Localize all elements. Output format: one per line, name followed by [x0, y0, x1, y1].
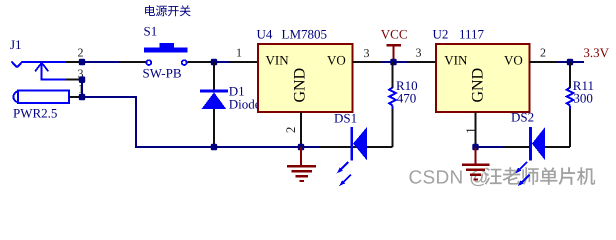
wire S1 to node A	[188, 61, 215, 63]
svg-text:LM7805: LM7805	[282, 27, 328, 42]
label DS1	[334, 111, 357, 126]
IC U2 (1117 regulator) body	[436, 44, 529, 112]
wire ground rail	[135, 146, 350, 148]
value label LM7805	[282, 27, 328, 42]
wire U4 VO to VCC node	[381, 61, 408, 63]
svg-text:VIN: VIN	[444, 52, 468, 67]
svg-text:3.3V: 3.3V	[583, 45, 609, 60]
junction U2 GND node	[472, 144, 478, 151]
svg-text:Diode: Diode	[229, 96, 261, 111]
pin 2 of U2 (VO)	[529, 61, 557, 63]
pin 3 of U4 (VO)	[352, 61, 381, 63]
label J1	[10, 37, 22, 52]
pin 2 of J1	[66, 61, 82, 63]
wire J1 pin1 to ground rail	[82, 96, 136, 147]
junction node 3.3V	[567, 59, 573, 66]
label U2	[433, 27, 449, 42]
label DS2	[511, 110, 534, 125]
LED DS1 light arrows	[337, 162, 351, 186]
svg-text:VO: VO	[327, 52, 346, 67]
pin 1 of U2 (GND)	[475, 112, 477, 147]
svg-text:PWR2.5: PWR2.5	[13, 106, 57, 121]
svg-text:GND: GND	[292, 68, 309, 103]
pin number 3 (J1)	[78, 67, 84, 81]
pin number 1 (J1)	[78, 81, 84, 95]
wire J1 pin3 to pin1	[81, 80, 83, 97]
svg-text:GND: GND	[470, 68, 487, 103]
value label Diode	[229, 96, 261, 111]
value label 1117	[459, 27, 485, 42]
svg-text:U2: U2	[433, 27, 449, 42]
value label SW-PB	[143, 66, 182, 81]
watermark CSDN	[409, 167, 596, 188]
pin number 2 (U4 GND, rotated)	[283, 127, 298, 134]
resistor R10	[389, 62, 396, 109]
pin number 1 (U2 GND, rotated)	[463, 127, 478, 134]
svg-text:U4: U4	[257, 27, 273, 42]
pin number 2 (J1)	[78, 46, 84, 60]
pin number 3 (U4 VO)	[364, 46, 370, 60]
pin 3 of J1	[66, 79, 82, 81]
svg-text:S1: S1	[144, 24, 158, 39]
net label VCC	[381, 27, 408, 42]
LED DS1	[350, 127, 392, 161]
power symbol VCC	[387, 45, 401, 62]
svg-text:2: 2	[78, 46, 84, 60]
junction at J1 pin 2	[79, 59, 85, 66]
label R10	[396, 78, 418, 93]
label U4	[257, 27, 273, 42]
LED DS2 light arrows	[515, 162, 529, 186]
wire R10 to DS1 anode	[392, 109, 394, 147]
svg-text:3: 3	[364, 46, 370, 60]
wire J1 pin2 to S1	[82, 61, 146, 63]
junction node A (S1 / D1 / U4)	[211, 59, 217, 66]
svg-text:VO: VO	[504, 52, 523, 67]
svg-text:470: 470	[397, 90, 417, 105]
svg-text:DS1: DS1	[334, 111, 357, 126]
svg-text:SW-PB: SW-PB	[143, 66, 182, 81]
connector J1 (power jack PWR2.5)	[11, 61, 69, 103]
svg-text:2: 2	[540, 46, 546, 60]
svg-text:DS2: DS2	[511, 110, 534, 125]
LED DS2	[504, 127, 571, 161]
junction U4 GND on ground rail	[298, 144, 304, 151]
value label PWR2.5	[13, 106, 57, 121]
svg-text:VIN: VIN	[266, 52, 290, 67]
svg-text:300: 300	[573, 90, 593, 105]
svg-text:VCC: VCC	[381, 27, 408, 42]
value label 300	[573, 90, 593, 105]
label S1	[144, 24, 158, 39]
svg-text:3: 3	[416, 46, 422, 60]
diode D1	[200, 62, 228, 147]
wire VCC node to U2 VIN	[394, 61, 437, 63]
IC U4 (LM7805 regulator) body	[258, 44, 352, 112]
wire U2 GND node to DS2 cathode	[476, 146, 504, 148]
pin number 3 (U2 VIN)	[416, 46, 422, 60]
junction at J1 pin 3	[79, 76, 85, 83]
junction D1 anode on ground rail	[211, 144, 217, 151]
resistor R11	[567, 62, 574, 109]
svg-text:J1: J1	[10, 37, 22, 52]
switch S1 (SW-PB push button)	[144, 43, 188, 65]
svg-text:2: 2	[283, 127, 298, 134]
value label 470	[397, 90, 417, 105]
ground symbol (U2 GND)	[462, 147, 489, 180]
text label 电源开关	[145, 5, 191, 16]
pin number 1 (U4 VIN)	[236, 46, 242, 60]
wire R11 to DS2 anode	[569, 109, 571, 147]
svg-text:1117: 1117	[459, 27, 485, 42]
net label 3.3V	[583, 45, 609, 60]
svg-text:1: 1	[463, 127, 478, 134]
junction node VCC	[390, 59, 396, 66]
junction at J1 pin 1	[79, 94, 85, 101]
label R11	[573, 78, 594, 93]
wire U2 VO to 3.3V node	[557, 61, 584, 63]
pin 2 of U4 (GND)	[300, 112, 302, 147]
svg-text:1: 1	[236, 46, 242, 60]
ground symbol (U4 GND)	[287, 147, 316, 181]
wire node A to U4 VIN	[214, 61, 258, 63]
label D1	[229, 83, 245, 98]
pin number 2 (U2 VO)	[540, 46, 546, 60]
pin 1 of J1	[69, 96, 82, 98]
